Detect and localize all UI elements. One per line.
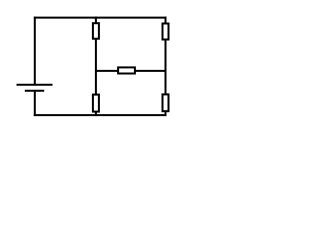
resistor R3 — [118, 67, 135, 73]
resistor R1 — [93, 23, 99, 39]
wire bottom rail — [34, 114, 167, 116]
wire battery top lead — [34, 17, 36, 85]
battery V1 — [17, 85, 53, 91]
wire middle branch — [95, 17, 97, 117]
wire top rail — [34, 17, 167, 19]
wire middle horizontal net — [96, 70, 166, 72]
wire right branch — [165, 17, 167, 117]
resistor R2 — [163, 24, 169, 40]
wire battery bottom lead — [34, 91, 36, 116]
resistor R5 — [163, 94, 169, 111]
resistor R4 — [93, 95, 99, 112]
